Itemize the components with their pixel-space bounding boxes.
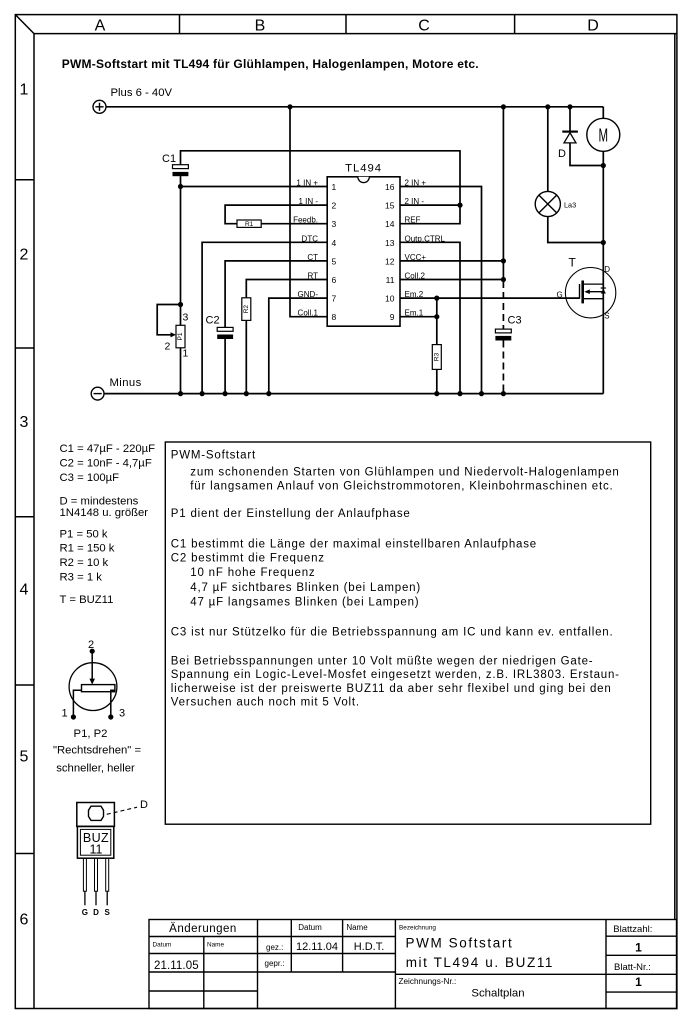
potentiometer wiper arrow bbox=[89, 679, 95, 685]
wire dashed above C3 bbox=[502, 281, 504, 329]
wire pin 8 Coll.1 to +V bbox=[290, 107, 327, 317]
transistor source stub bbox=[583, 298, 603, 300]
tb zeichnungs divider bbox=[395, 973, 606, 975]
tb right col line 4 bbox=[606, 991, 677, 993]
wire P1 wiper loop bbox=[157, 305, 180, 335]
node minus OutpCTRL bbox=[457, 391, 462, 396]
wire pin 11 Coll.2 bbox=[400, 279, 503, 281]
node diode +V bbox=[567, 104, 572, 109]
svg-text:Plus 6 - 40V: Plus 6 - 40V bbox=[111, 87, 173, 99]
tb right col line 3 bbox=[606, 973, 677, 975]
svg-text:"Rechtsdrehen" =: "Rechtsdrehen" = bbox=[53, 744, 141, 756]
svg-text:B: B bbox=[255, 18, 266, 35]
capacitor C2 bbox=[217, 327, 233, 331]
svg-text:1: 1 bbox=[183, 348, 189, 360]
node C1 pin1 bbox=[178, 184, 183, 189]
wire P1 bottom to minus bbox=[180, 348, 182, 394]
svg-text:2: 2 bbox=[332, 201, 337, 211]
wire pin 6 RT to R2 bbox=[246, 280, 327, 298]
potentiometer P1 bbox=[176, 325, 185, 348]
tb gez gepr bbox=[265, 943, 285, 968]
svg-text:Datum: Datum bbox=[153, 942, 172, 949]
svg-text:R3 = 1 k: R3 = 1 k bbox=[60, 571, 103, 583]
capacitor C3 bbox=[495, 329, 511, 333]
svg-text:5: 5 bbox=[332, 256, 337, 266]
svg-text:P1 = 50 k: P1 = 50 k bbox=[60, 528, 108, 540]
svg-text:R2 = 10 k: R2 = 10 k bbox=[60, 557, 109, 569]
FRAME-TEXT bbox=[20, 18, 599, 929]
node P1 top bbox=[178, 302, 183, 307]
transistor gate bar bbox=[579, 284, 581, 299]
node minus P1 bbox=[178, 391, 183, 396]
svg-text:A: A bbox=[95, 18, 106, 35]
svg-text:C1: C1 bbox=[162, 153, 176, 165]
svg-text:D: D bbox=[93, 908, 99, 917]
wire minus bottom rail bbox=[104, 393, 603, 395]
svg-text:C1 bestimmt die Länge der maxi: C1 bestimmt die Länge der maximal einste… bbox=[171, 539, 537, 551]
svg-text:16: 16 bbox=[385, 182, 395, 192]
svg-text:G: G bbox=[82, 908, 88, 917]
BUZ11 package tab bbox=[77, 803, 115, 827]
svg-text:REF: REF bbox=[405, 216, 421, 225]
node VCC+ bbox=[501, 258, 506, 263]
svg-text:Bezeichnung: Bezeichnung bbox=[399, 925, 436, 932]
BUZ11 leg S bbox=[106, 858, 109, 891]
svg-text:Em.2: Em.2 bbox=[405, 290, 424, 299]
svg-text:PWM Softstart: PWM Softstart bbox=[406, 936, 514, 951]
BUZ11 mounting hole bbox=[89, 806, 104, 820]
svg-text:D: D bbox=[587, 18, 599, 35]
TL494 pin numbers left bbox=[332, 182, 337, 322]
svg-text:RT: RT bbox=[307, 272, 318, 281]
wire R3 bottom to minus bbox=[436, 369, 438, 393]
diode D bbox=[562, 132, 578, 143]
capacitor C1 bbox=[173, 165, 189, 169]
svg-text:C2 bestimmt die Frequenz: C2 bestimmt die Frequenz bbox=[171, 552, 325, 564]
wire +V to lamp bbox=[547, 107, 549, 192]
tb divider aenderungen right bbox=[257, 920, 259, 1009]
svg-text:4: 4 bbox=[20, 582, 29, 599]
tb small labels bbox=[153, 923, 653, 986]
svg-text:Blatt-Nr.:: Blatt-Nr.: bbox=[614, 962, 651, 973]
svg-text:2 IN +: 2 IN + bbox=[405, 179, 427, 188]
svg-text:Änderungen: Änderungen bbox=[169, 923, 237, 935]
svg-text:C3 ist nur Stützelko für die B: C3 ist nur Stützelko für die Betriebsspa… bbox=[171, 627, 614, 639]
TL494 pin labels right bbox=[405, 179, 446, 318]
svg-text:R1: R1 bbox=[245, 221, 254, 228]
svg-text:1: 1 bbox=[61, 708, 67, 720]
tb divider bezeichnung left bbox=[394, 920, 396, 1009]
svg-text:C3: C3 bbox=[508, 315, 522, 327]
node Em.1 bbox=[434, 314, 439, 319]
tb right col line 1 bbox=[606, 935, 677, 937]
wire Em junction down to R3 bbox=[436, 298, 438, 345]
node minus C2 bbox=[223, 391, 228, 396]
svg-text:T: T bbox=[569, 256, 577, 270]
svg-text:Name: Name bbox=[207, 942, 224, 949]
header divider C/D bbox=[514, 15, 516, 34]
left number strip line bbox=[33, 34, 35, 1009]
potentiometer terminal 2 dot bbox=[90, 649, 95, 654]
svg-text:gez.:: gez.: bbox=[266, 943, 283, 952]
resistor R1 bbox=[237, 220, 261, 227]
wire pin 4 DTC to minus bbox=[202, 242, 327, 393]
row divider 2/3 bbox=[15, 347, 34, 349]
svg-text:DTC: DTC bbox=[302, 234, 319, 243]
svg-text:4,7 µF sichtbares Blinken (bei: 4,7 µF sichtbares Blinken (bei Lampen) bbox=[190, 582, 421, 594]
svg-text:6: 6 bbox=[20, 912, 29, 929]
svg-text:PWM-Softstart: PWM-Softstart bbox=[171, 449, 256, 461]
title block outline bbox=[149, 920, 677, 1009]
row divider 1/2 bbox=[15, 179, 34, 181]
transistor body diode mark bbox=[601, 289, 606, 294]
svg-text:Spannung ein Logic-Level-Mosfe: Spannung ein Logic-Level-Mosfet eingeset… bbox=[171, 669, 620, 681]
tb row line 2 bbox=[149, 953, 395, 955]
node pin8 +V bbox=[287, 104, 292, 109]
svg-text:12.11.04: 12.11.04 bbox=[296, 941, 338, 953]
tb divider datum/name bbox=[203, 937, 205, 1009]
transistor drain stub bbox=[583, 283, 603, 285]
svg-text:2: 2 bbox=[20, 247, 29, 264]
svg-text:C2: C2 bbox=[206, 315, 220, 327]
svg-text:D: D bbox=[140, 799, 148, 811]
wire C2 bottom to minus bbox=[224, 339, 226, 394]
svg-text:D: D bbox=[558, 148, 566, 160]
resistor R2 bbox=[242, 298, 251, 321]
node 2IN- REF bbox=[457, 203, 462, 208]
corner diagonal bbox=[15, 15, 34, 34]
svg-text:Bei Betriebsspannungen unter 1: Bei Betriebsspannungen unter 10 Volt müß… bbox=[171, 656, 594, 668]
TL494 pin labels left bbox=[293, 179, 318, 318]
svg-text:3: 3 bbox=[332, 219, 337, 229]
svg-text:schneller, heller: schneller, heller bbox=[56, 763, 135, 775]
wire pin 3 to R1 bbox=[261, 223, 327, 225]
svg-text:R1 = 150 k: R1 = 150 k bbox=[60, 543, 115, 555]
svg-text:Datum: Datum bbox=[298, 923, 322, 932]
BUZ11 drain pointer bbox=[107, 807, 137, 814]
svg-text:licherweise ist der preiswerte: licherweise ist der preiswerte BUZ11 da … bbox=[171, 683, 612, 695]
svg-text:M: M bbox=[599, 126, 609, 146]
svg-text:Blattzahl:: Blattzahl: bbox=[613, 924, 652, 935]
potentiometer wiper wire bbox=[91, 651, 93, 679]
svg-text:3: 3 bbox=[20, 414, 29, 431]
tb row line 1 bbox=[149, 936, 395, 938]
description box bbox=[165, 442, 650, 824]
wire motor/drain/source column bbox=[602, 151, 604, 393]
node lamp drain bbox=[601, 240, 606, 245]
svg-text:11: 11 bbox=[386, 275, 395, 285]
BUZ11 leg G bbox=[83, 858, 86, 891]
wire pin 2 to R1 bbox=[225, 205, 327, 224]
BUZ11 pin labels bbox=[82, 908, 111, 917]
svg-text:21.11.05: 21.11.05 bbox=[154, 960, 199, 972]
svg-text:GND-: GND- bbox=[298, 290, 319, 299]
pot caption bbox=[53, 728, 141, 775]
terminal plus bbox=[93, 100, 106, 113]
tb right col line 2 bbox=[606, 954, 677, 956]
transistor Q1 BUZ11 circle bbox=[565, 268, 615, 318]
header strip bottom line bbox=[34, 33, 677, 35]
terminal minus bbox=[91, 387, 104, 400]
svg-text:R2: R2 bbox=[243, 305, 250, 314]
wire R2 bottom to minus bbox=[245, 320, 247, 393]
wire pin 1 row bbox=[181, 186, 328, 188]
node minus 2IN+ bbox=[479, 391, 484, 396]
svg-text:C: C bbox=[418, 18, 430, 35]
tb row line 4 left bbox=[149, 990, 258, 992]
svg-text:CT: CT bbox=[307, 253, 318, 262]
potentiometer terminal 1 wire bbox=[73, 690, 81, 717]
svg-text:7: 7 bbox=[332, 294, 337, 304]
svg-text:15: 15 bbox=[385, 201, 395, 211]
svg-text:T = BUZ11: T = BUZ11 bbox=[60, 594, 114, 606]
svg-text:Em.1: Em.1 bbox=[405, 309, 424, 318]
svg-text:Feedb.: Feedb. bbox=[293, 216, 318, 225]
wire pin 12 VCC+ bbox=[400, 260, 503, 262]
row divider 5/6 bbox=[15, 853, 34, 855]
node minus R3 bbox=[434, 391, 439, 396]
row divider 3/4 bbox=[15, 516, 34, 518]
svg-text:1: 1 bbox=[332, 182, 337, 192]
svg-text:La3: La3 bbox=[564, 201, 576, 210]
svg-text:R3: R3 bbox=[433, 352, 440, 361]
svg-text:C1 = 47µF - 220µF: C1 = 47µF - 220µF bbox=[60, 443, 156, 455]
svg-text:2 IN -: 2 IN - bbox=[405, 197, 425, 206]
wire +V top rail bbox=[106, 106, 603, 108]
svg-text:1N4148 u. größer: 1N4148 u. größer bbox=[60, 507, 149, 519]
op-amp U1 TL494 body bbox=[327, 177, 400, 326]
svg-text:5: 5 bbox=[20, 749, 29, 766]
svg-text:1: 1 bbox=[20, 82, 29, 99]
svg-text:47 µF langsames Blinken (bei L: 47 µF langsames Blinken (bei Lampen) bbox=[190, 596, 419, 608]
svg-text:12: 12 bbox=[385, 256, 395, 266]
potentiometer top view circle bbox=[69, 663, 117, 711]
svg-text:10: 10 bbox=[385, 294, 395, 304]
BUZ11 body bbox=[77, 826, 113, 858]
svg-text:mit TL494 u. BUZ11: mit TL494 u. BUZ11 bbox=[406, 955, 554, 970]
wire pin 10 Em.2 to gate bbox=[400, 297, 580, 299]
wire diode to motor bottom bbox=[570, 143, 603, 166]
svg-text:4: 4 bbox=[332, 238, 337, 248]
svg-text:Zeichnungs-Nr.:: Zeichnungs-Nr.: bbox=[399, 977, 457, 986]
wire pin 5 CT to C2 bbox=[225, 261, 327, 328]
svg-text:G: G bbox=[557, 291, 563, 300]
SCHEMATIC bbox=[104, 107, 603, 394]
inner right border line bbox=[674, 34, 676, 920]
svg-text:Name: Name bbox=[346, 923, 368, 932]
node Em.2 bbox=[434, 296, 439, 301]
svg-text:Minus: Minus bbox=[110, 377, 142, 389]
svg-text:D: D bbox=[604, 265, 610, 274]
wire pin 13 Outp.CTRL to minus bbox=[400, 242, 460, 393]
row divider 4/5 bbox=[15, 684, 34, 686]
svg-text:Schaltplan: Schaltplan bbox=[471, 988, 524, 1000]
wire pin 7 GND to minus bbox=[269, 298, 327, 394]
wire +V to diode bbox=[569, 107, 571, 131]
svg-text:C2 = 10nF - 4,7µF: C2 = 10nF - 4,7µF bbox=[60, 457, 152, 469]
svg-text:P1, P2: P1, P2 bbox=[74, 728, 108, 740]
potentiometer terminal 1 dot bbox=[71, 714, 76, 719]
node minus GND bbox=[266, 391, 271, 396]
wire C1 bottom down to P1 bbox=[180, 176, 182, 325]
svg-text:H.D.T.: H.D.T. bbox=[354, 941, 385, 953]
wire lamp to drain node bbox=[548, 217, 604, 243]
wire pin 15 2IN- bbox=[400, 204, 460, 206]
svg-text:zum schonenden Starten von Glü: zum schonenden Starten von Glühlampen un… bbox=[190, 467, 619, 479]
node VCC column +V bbox=[501, 104, 506, 109]
svg-text:gepr.:: gepr.: bbox=[265, 959, 285, 968]
tb divider gez right bbox=[290, 920, 292, 973]
svg-text:14: 14 bbox=[385, 219, 395, 229]
wire C1 top to REF (pin 14) bbox=[181, 151, 461, 224]
junction dots bbox=[178, 104, 606, 396]
header divider A/B bbox=[179, 15, 181, 34]
P1 wiper arrow bbox=[171, 332, 177, 337]
node Coll.2 bbox=[501, 277, 506, 282]
node minus DTC bbox=[200, 391, 205, 396]
svg-text:D = mindestens: D = mindestens bbox=[60, 495, 139, 507]
potentiometer resistor body bbox=[82, 685, 115, 692]
svg-text:S: S bbox=[604, 312, 609, 321]
svg-text:Versuchen auch noch mit 5 Volt: Versuchen auch noch mit 5 Volt. bbox=[171, 697, 360, 709]
svg-text:C3 = 100µF: C3 = 100µF bbox=[60, 472, 120, 484]
svg-text:3: 3 bbox=[183, 312, 189, 324]
svg-text:3: 3 bbox=[119, 708, 125, 720]
svg-text:6: 6 bbox=[332, 275, 337, 285]
transistor channel bar bbox=[581, 281, 584, 304]
svg-text:1 IN +: 1 IN + bbox=[296, 179, 318, 188]
svg-text:2: 2 bbox=[88, 639, 94, 651]
svg-text:P1: P1 bbox=[177, 332, 184, 340]
TITLEBLOCK bbox=[149, 920, 677, 1009]
tb divider right column bbox=[605, 920, 607, 1009]
svg-text:2: 2 bbox=[165, 341, 171, 353]
wire pin 16 2IN+ to minus bbox=[400, 187, 482, 394]
svg-text:Coll.1: Coll.1 bbox=[298, 309, 319, 318]
svg-text:8: 8 bbox=[332, 312, 337, 322]
header divider B/C bbox=[345, 15, 347, 34]
svg-text:1 IN -: 1 IN - bbox=[298, 197, 318, 206]
potentiometer terminal 3 wire bbox=[111, 690, 115, 717]
node lamp +V bbox=[545, 104, 550, 109]
node minus R2 bbox=[244, 391, 249, 396]
TL494 pin numbers right bbox=[385, 182, 395, 322]
svg-text:1: 1 bbox=[635, 975, 642, 989]
node minus C3 bbox=[501, 391, 506, 396]
node diode motor bbox=[601, 163, 606, 168]
svg-text:VCC+: VCC+ bbox=[405, 253, 427, 262]
tb row line 3 bbox=[149, 971, 395, 973]
svg-text:1: 1 bbox=[635, 940, 642, 954]
BUZ11 leg D bbox=[95, 858, 98, 891]
svg-text:PWM-Softstart mit TL494 für Gl: PWM-Softstart mit TL494 für Glühlampen, … bbox=[62, 57, 479, 71]
svg-text:10 nF hohe Frequenz: 10 nF hohe Frequenz bbox=[190, 567, 315, 579]
motor M bbox=[587, 118, 620, 151]
svg-text:9: 9 bbox=[390, 312, 395, 322]
tb divider datum2 right bbox=[342, 920, 344, 973]
LEFTTEXT bbox=[60, 443, 156, 606]
potentiometer terminal 3 dot bbox=[108, 714, 113, 719]
svg-text:Outp.CTRL: Outp.CTRL bbox=[405, 234, 446, 243]
TL494 notch bbox=[358, 177, 370, 183]
svg-text:P1 dient der Einstellung der A: P1 dient der Einstellung der Anlaufphase bbox=[171, 508, 411, 520]
lamp La3 bbox=[535, 191, 560, 216]
svg-text:13: 13 bbox=[385, 238, 395, 248]
svg-text:für langsamen Anlauf von Gleic: für langsamen Anlauf von Gleichstrommoto… bbox=[190, 480, 613, 492]
svg-text:S: S bbox=[105, 908, 111, 917]
svg-text:TL494: TL494 bbox=[345, 163, 382, 175]
transistor body stub with arrow bbox=[586, 291, 603, 293]
wire dashed C3 to minus bbox=[502, 341, 504, 394]
wire motor top from rail bbox=[602, 107, 604, 119]
resistor R3 bbox=[432, 345, 441, 370]
svg-text:11: 11 bbox=[90, 843, 103, 857]
wire +V column to C3 bbox=[502, 107, 504, 281]
svg-text:Coll.2: Coll.2 bbox=[405, 272, 426, 281]
wire pin 9 Em.1 bbox=[400, 316, 437, 318]
